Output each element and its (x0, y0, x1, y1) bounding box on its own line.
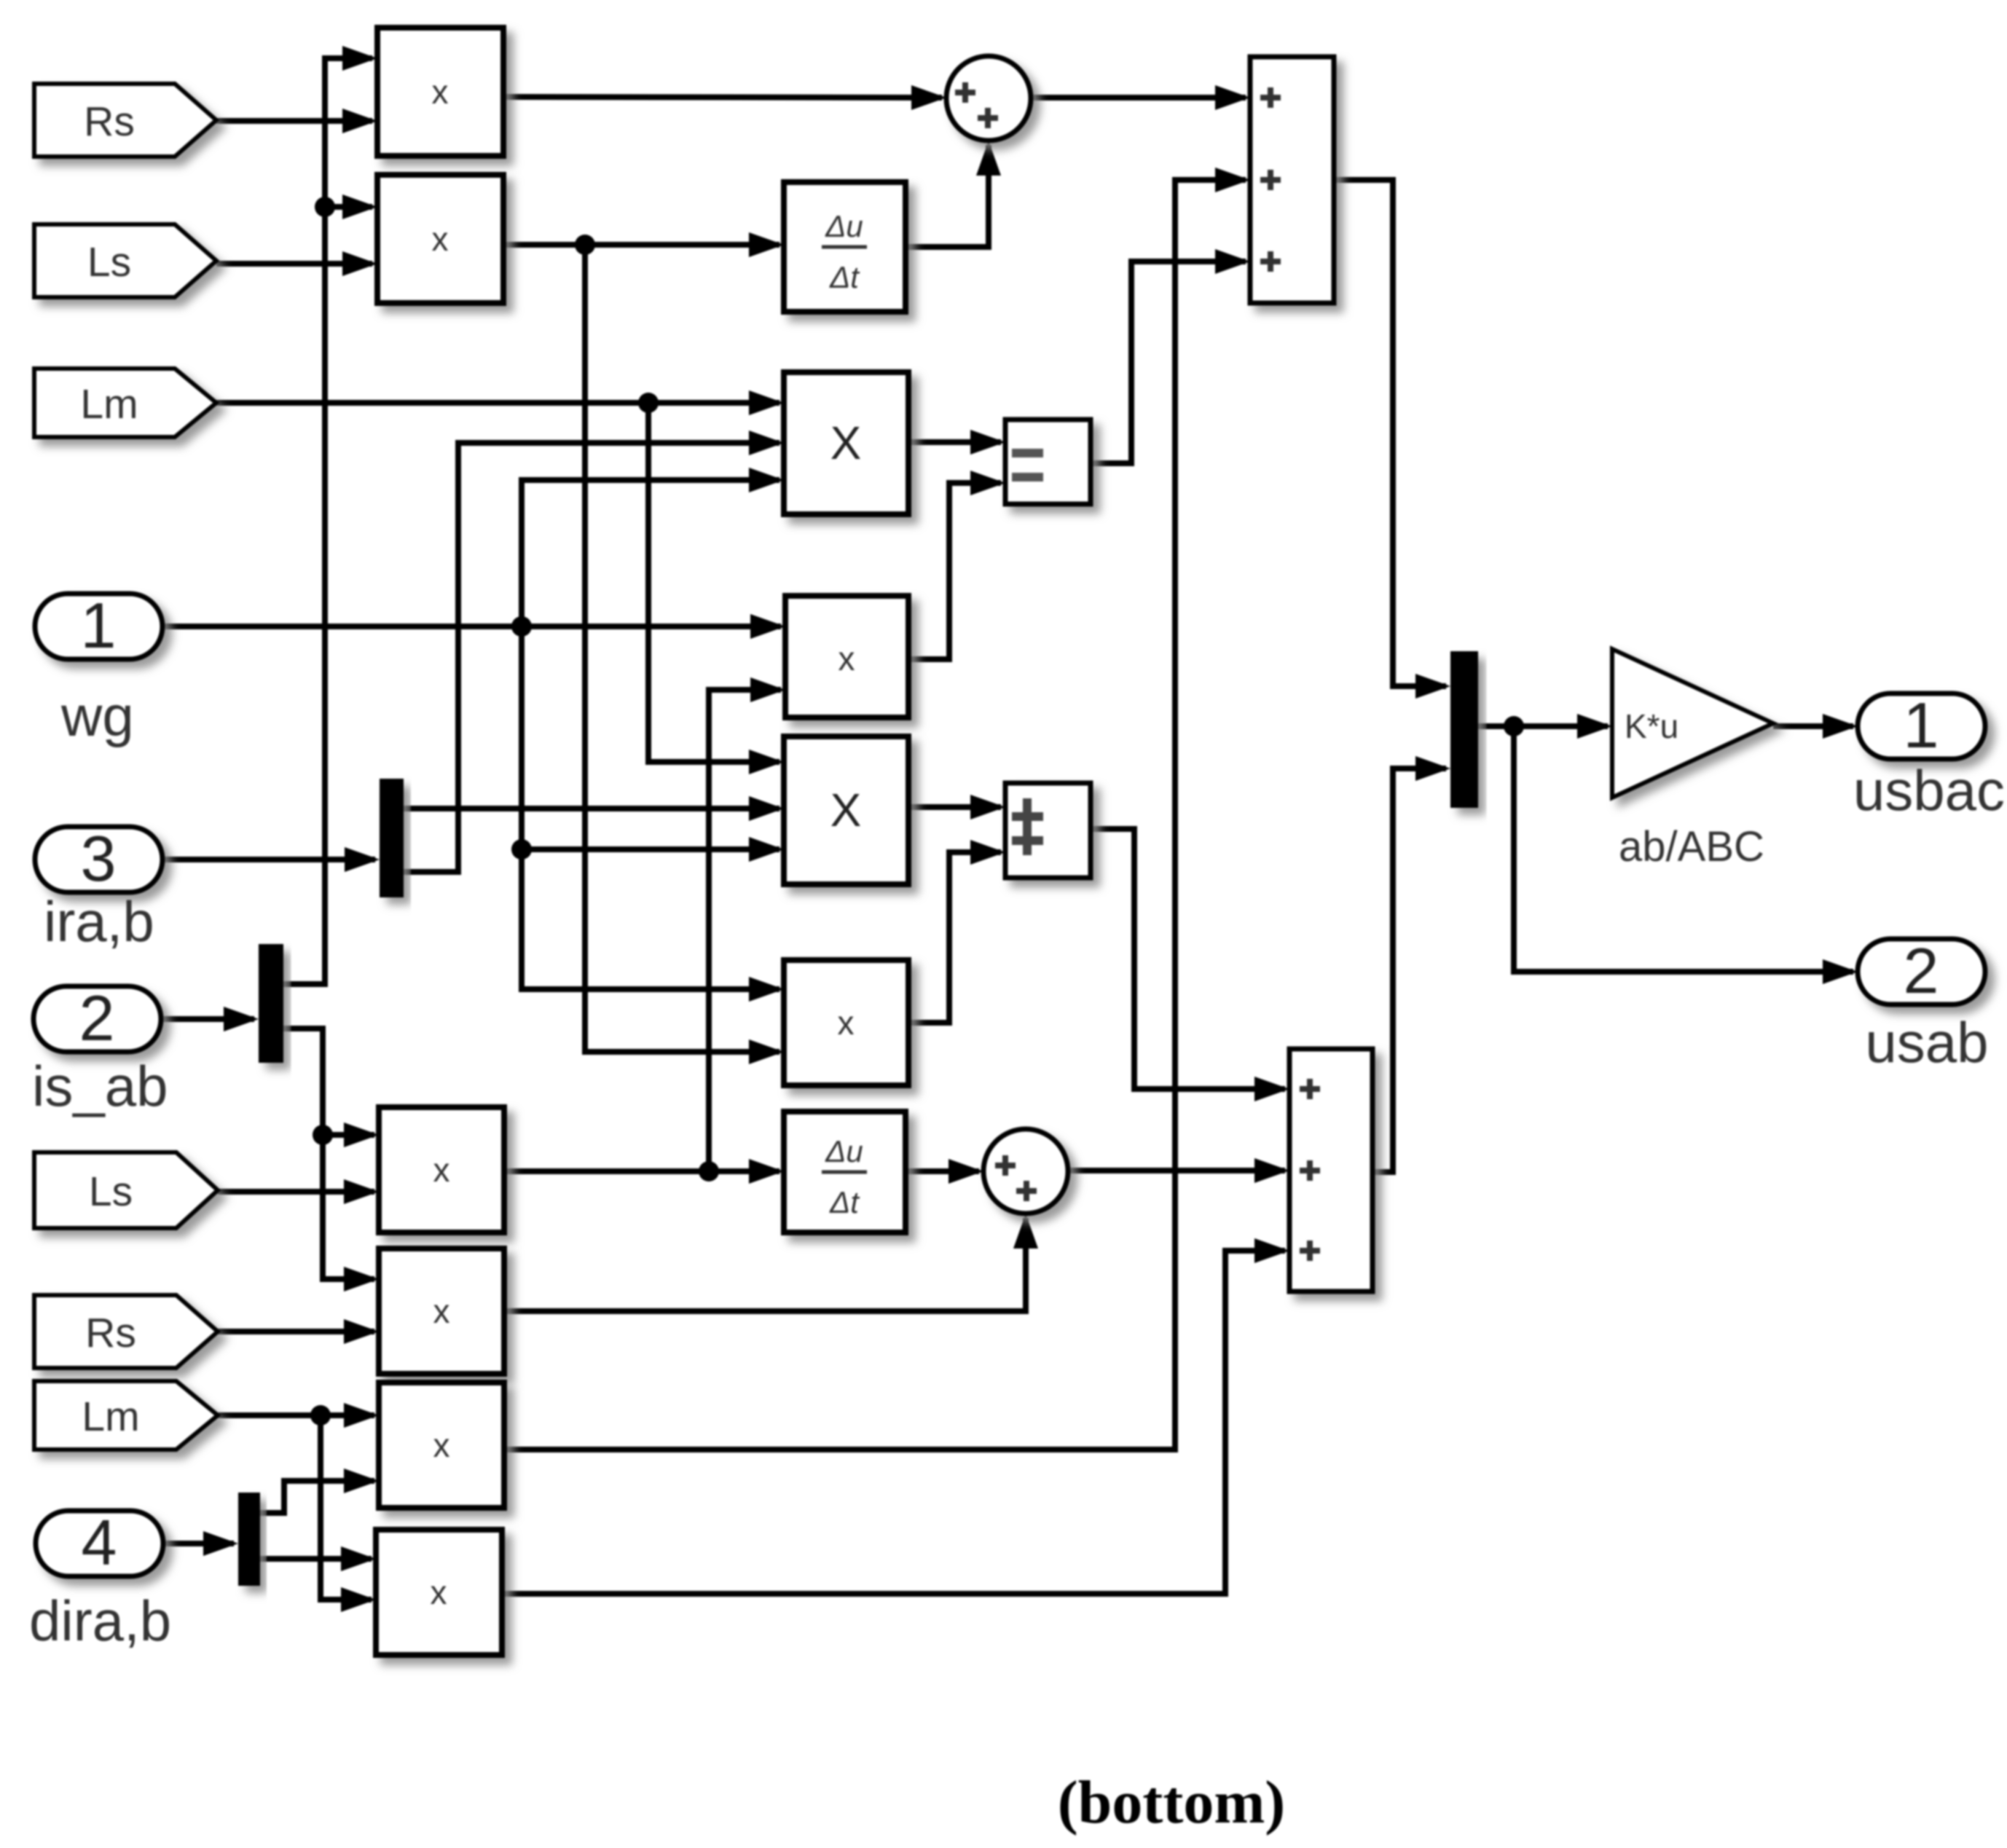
svg-text:x: x (433, 1292, 450, 1330)
arrow EQ1 in2 (970, 471, 1005, 495)
arrow P2 in2 (342, 251, 377, 276)
product P4 (784, 960, 908, 1085)
wire gain out to OUT1 (1773, 723, 1853, 729)
inport 2 (is_ab) (34, 982, 161, 1054)
sum block SUMR1 (1250, 57, 1334, 303)
wire port4 to demux MUX4 (163, 1541, 234, 1546)
arrow MUX3 in1 (1415, 674, 1450, 699)
product P8 (376, 1530, 502, 1655)
wire SUMR1 out to MUX3 in1 (1334, 180, 1446, 686)
wire D2 out to S2 (906, 1168, 979, 1174)
svg-text:wg: wg (60, 684, 134, 748)
arrow MUX2 in (224, 1007, 259, 1031)
arrow SUMR1 in2 (1215, 168, 1250, 192)
svg-text:is_ab: is_ab (32, 1054, 168, 1118)
svg-text:K*u: K*u (1625, 707, 1678, 745)
arrow P7 in1 (344, 1403, 379, 1428)
arrow P4 in1 (749, 977, 784, 1002)
svg-text:usab: usab (1865, 1010, 1988, 1074)
svg-text:1: 1 (1904, 689, 1939, 761)
gain ab/ABC (1612, 649, 1773, 798)
svg-text:Δu: Δu (825, 1134, 863, 1168)
svg-text:Ls: Ls (89, 1168, 133, 1215)
svg-text:x: x (433, 1151, 450, 1189)
svg-text:X: X (830, 784, 862, 836)
arrow MUX3 in2 (1415, 756, 1450, 781)
arrow SUMR1 in1 (1215, 85, 1250, 110)
svg-text:Rs: Rs (84, 98, 135, 145)
input tag Ls (bottom) (34, 1152, 218, 1228)
wire Ls2 to P5 in2 (218, 1189, 374, 1195)
wire MUX2 out1 to P1 in1 and P2 in1 (283, 58, 372, 984)
arrow P3 in2 (750, 677, 785, 702)
wire wg to P3 in1 (162, 624, 781, 629)
demux MUX4 (dira,b) (238, 1493, 260, 1586)
svg-text:Lm: Lm (82, 1393, 139, 1440)
svg-text:x: x (838, 640, 855, 677)
wire X2 out to DIV1 in1 (908, 804, 1001, 810)
svg-text:ab/ABC: ab/ABC (1619, 823, 1764, 870)
derivative D2 (784, 1112, 906, 1232)
arrow SUMR2 in2 (1254, 1158, 1289, 1183)
svg-text:Ls: Ls (87, 239, 131, 286)
wire MUX1 out1 to X2 in2 (404, 806, 779, 811)
arrow P8 in1 (341, 1546, 376, 1571)
input tag Lm (bottom) (34, 1381, 218, 1450)
svg-text:ira,b: ira,b (44, 889, 154, 954)
wire MUX4 out1 to P7 in2 (260, 1481, 374, 1513)
wire SUMR2 out to MUX3 in2 (1372, 768, 1446, 1172)
arrow MUX1 in (345, 847, 380, 872)
arrow X2 in3 (749, 837, 784, 862)
demux MUX1 (ira,b) (380, 779, 404, 897)
arrow gain in (1577, 714, 1612, 739)
svg-text:Δt: Δt (829, 1185, 860, 1219)
arrow MUX4 in (203, 1531, 238, 1556)
wire Lm1 to X1 in1 (216, 400, 779, 406)
inport 3 (ira,b) (35, 822, 162, 894)
arrow P6 in2 (344, 1319, 379, 1344)
wire P2 branch to P4 in2 (585, 245, 779, 1052)
arrow P6 in1 (344, 1267, 379, 1291)
wire P8 out to SUMR2 in3 (502, 1251, 1285, 1594)
arrow EQ1 in1 (970, 430, 1005, 455)
arrow DIV1 in2 (970, 840, 1005, 865)
arrow P7 in2 (344, 1468, 379, 1493)
arrow SUMR2 in3 (1254, 1238, 1289, 1263)
arrow P5 in1 (344, 1122, 379, 1147)
product X1 (3-input) (784, 372, 908, 514)
derivative D1 (784, 182, 906, 312)
svg-text:2: 2 (1904, 935, 1939, 1007)
arrow OUT2 in (1823, 959, 1858, 984)
svg-text:x: x (432, 73, 449, 111)
arrow P2 in1 (342, 194, 377, 219)
arrow DIV1 in1 (970, 795, 1005, 819)
wire S2 out to SUMR2 in2 (1068, 1168, 1285, 1173)
node wg-X2 branch (511, 839, 532, 860)
svg-text:x: x (433, 1426, 450, 1464)
wire port2 to demux MUX2 (161, 1016, 254, 1022)
wire X1 out to EQ1 in1 (908, 439, 1001, 445)
outport 1 (usbac) (1858, 689, 1985, 761)
wire S1 out to SUMR1 in1 (1031, 95, 1246, 101)
wire P5 out to D2 (504, 1168, 779, 1174)
node Lm-X2 branch (638, 393, 659, 413)
svg-text:4: 4 (82, 1506, 117, 1578)
wire P6 out to S2 bottom (504, 1218, 1026, 1311)
svg-text:2: 2 (79, 982, 115, 1054)
wire P4 out to DIV1 in2 (908, 852, 1001, 1023)
node wg-up branch (511, 616, 532, 637)
svg-text:x: x (838, 1004, 855, 1042)
wire wg branch up to X1 in3 (522, 480, 779, 626)
ARROWHEADS (203, 46, 1858, 1612)
wire MUX2 out2 to P5 in1 and P6 in1 (283, 1029, 374, 1279)
arrow S1 bottom (976, 141, 1001, 176)
arrow P5 in2 (344, 1179, 379, 1204)
arrow X1 in2 (749, 430, 784, 455)
svg-text:Δu: Δu (825, 209, 863, 243)
demux MUX2 (is_ab) (259, 944, 283, 1063)
sum S2 (983, 1129, 1068, 1214)
divide block DIV1 (1005, 783, 1091, 878)
arrow SUMR2 in1 (1254, 1077, 1289, 1101)
arrow S1 left (911, 85, 946, 110)
wire branch to OUT2 (1514, 726, 1853, 972)
arrow X2 in2 (749, 796, 784, 821)
svg-text:3: 3 (81, 822, 117, 894)
arrow SUMR1 in3 (1215, 249, 1250, 274)
wire MUX3 out to gain (1478, 723, 1608, 729)
wire P1 out to S1 (503, 97, 942, 98)
node P5out-P3 branch (699, 1161, 719, 1181)
product P1 (377, 28, 503, 156)
svg-text:x: x (431, 1573, 447, 1611)
wire Lm2 branch to P8 in2 (321, 1415, 372, 1600)
node isb-P5 branch (313, 1125, 333, 1145)
arrow X1 in3 (749, 468, 784, 492)
node P2out-P4 branch (575, 235, 595, 255)
relational block EQ1 (1005, 420, 1091, 504)
sum block SUMR2 (1289, 1049, 1372, 1291)
wire MUX4 out2 to P8 in1 (260, 1556, 372, 1562)
wire P2 out to D1 (503, 242, 779, 248)
svg-text:dira,b: dira,b (29, 1589, 171, 1653)
wire Lm branch to X2 in1 (648, 403, 779, 762)
product P6 (379, 1249, 504, 1374)
arrow D1 in (749, 232, 784, 257)
inport 1 (wg) (35, 589, 162, 661)
mux MUX3 (output mux) (1450, 651, 1478, 808)
arrow S2 bottom (1013, 1214, 1038, 1249)
wire DIV1 out to SUMR2 in1 (1091, 829, 1285, 1089)
input tag Rs (top) (34, 84, 216, 157)
svg-text:Lm: Lm (80, 381, 138, 428)
svg-text:X: X (830, 417, 862, 469)
wire D1 out to S1 bottom (906, 145, 989, 247)
wire EQ1 out to SUMR1 in3 (1091, 262, 1246, 463)
svg-text:usbac: usbac (1853, 758, 2005, 822)
svg-text:1: 1 (81, 589, 117, 661)
product P3 (785, 596, 908, 717)
svg-text:(bottom): (bottom) (1058, 1769, 1286, 1836)
arrow P3 in1 (750, 614, 785, 639)
product X2 (3-input) (784, 736, 908, 884)
node Lm2-P8 branch (310, 1405, 331, 1426)
wire Lm2 to P7 in1 (218, 1412, 374, 1418)
arrow X2 in1 (749, 750, 784, 774)
input tag Lm (top) (34, 369, 216, 437)
product P5 (379, 1107, 504, 1232)
wire P3 out to EQ1 in2 (908, 483, 1001, 659)
sum S1 (946, 56, 1031, 141)
wire MUX1 out2 to X1 in2 (404, 443, 779, 872)
wire P7 out to SUMR1 in2 (504, 180, 1246, 1450)
wire Rs1 to P1 in2 (216, 118, 372, 124)
wire P5 branch to P3 in2 (709, 690, 781, 1171)
input tag Rs (bottom) (34, 1295, 218, 1368)
arrow P8 in2 (341, 1587, 376, 1612)
arrow S2 left (948, 1159, 983, 1184)
arrow D2 in (749, 1159, 784, 1184)
product P7 (379, 1383, 504, 1508)
node mux3out-OUT2 branch (1504, 716, 1524, 736)
svg-text:Δt: Δt (829, 260, 860, 294)
arrow OUT1 in (1823, 714, 1858, 739)
svg-text:x: x (432, 220, 449, 258)
arrow P1 in2 (342, 109, 377, 133)
svg-text:Rs: Rs (85, 1310, 136, 1356)
wire Ls1 to P2 in2 (216, 261, 372, 267)
product P2 (377, 175, 503, 303)
arrow P1 in1 (342, 46, 377, 71)
input tag Ls (top) (34, 224, 216, 297)
wire wg branch down to X2 in3 and P4 in1 (522, 626, 779, 989)
inport 4 (dira,b) (36, 1506, 163, 1578)
node isa-P2 branch (315, 197, 335, 217)
outport 2 (usab) (1858, 935, 1985, 1007)
wire Rs2 to P6 in2 (218, 1329, 374, 1334)
arrow X1 in1 (749, 390, 784, 415)
arrow P4 in2 (749, 1039, 784, 1064)
wire port3 to demux MUX1 (162, 857, 375, 862)
